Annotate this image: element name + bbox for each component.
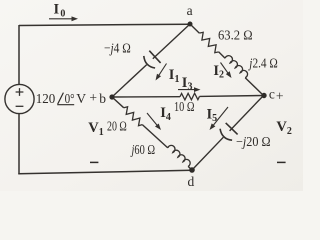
wire inductor j2.4 to node c (245, 78, 263, 96)
current arrow I4 (147, 113, 158, 126)
wire c-d upper lead (230, 96, 264, 131)
resistor 20 Ohm (124, 107, 143, 126)
wire bottom horizontal (to node d) (18, 170, 192, 174)
current arrow I3 (178, 89, 196, 91)
wire between resistor 63.2 and inductor j2.4 (219, 52, 225, 58)
current arrow I1 (158, 64, 166, 77)
wire b to resistor 10 (112, 96, 180, 98)
inductor j2.4 Ohm (225, 56, 247, 78)
svg-text:−j4 Ω: −j4 Ω (104, 41, 131, 56)
label phasor angle underline (57, 104, 74, 106)
node a (junction dot) (188, 22, 193, 27)
voltage source VS circle (5, 84, 34, 113)
wire top horizontal (source + to node a) (19, 24, 190, 25)
wire resistor 10 to node c (200, 95, 264, 98)
capacitor -j20 Ohm (plates) (226, 123, 238, 134)
wire inductor j60 to node d (188, 166, 192, 170)
wire left vertical lower (source bottom lead) (18, 113, 20, 174)
current arrow I0 (49, 18, 73, 20)
voltage source plus terminal mark (16, 88, 24, 96)
svg-text:10 Ω: 10 Ω (174, 99, 195, 114)
wire c-d lower lead (192, 137, 223, 170)
label phasor angle slash (58, 93, 64, 104)
svg-text:a: a (187, 3, 193, 18)
wire a to resistor 63.2 (190, 24, 199, 33)
capacitor -j4 Ohm (plates) (149, 51, 160, 63)
svg-text:c: c (269, 87, 275, 102)
inductor j60 Ohm (168, 145, 190, 166)
resistor 10 Ohm (180, 93, 200, 100)
wire a-b lower lead (112, 65, 147, 97)
current arrow I2 (221, 63, 229, 74)
svg-text:j2.4 Ω: j2.4 Ω (248, 55, 278, 70)
voltage source minus terminal mark (16, 105, 24, 107)
svg-text:d: d (188, 174, 195, 189)
V2 minus sign (277, 161, 286, 163)
svg-text:j60 Ω: j60 Ω (130, 142, 155, 157)
svg-text:63.2 Ω: 63.2 Ω (218, 28, 253, 43)
node d (junction dot) (189, 167, 195, 173)
wire between resistor 20 and inductor j60 (142, 125, 168, 148)
svg-text:0°: 0° (65, 91, 75, 106)
svg-text:+: + (276, 88, 284, 103)
svg-text:120: 120 (36, 91, 56, 106)
node b (junction dot) (109, 94, 114, 99)
V1 minus sign (90, 161, 98, 163)
svg-text:V: V (76, 91, 86, 106)
current arrow I5 (213, 107, 228, 126)
svg-text:20 Ω: 20 Ω (107, 119, 127, 134)
svg-text:−j20 Ω: −j20 Ω (236, 134, 271, 149)
svg-text:b: b (99, 91, 106, 106)
node c (junction dot) (261, 93, 266, 98)
wire left vertical upper (source top lead) (18, 25, 20, 85)
wire b to resistor 20 (112, 97, 124, 108)
svg-text:+: + (89, 90, 97, 105)
resistor 63.2 Ohm (199, 32, 218, 52)
wire a-b upper lead (153, 24, 190, 59)
